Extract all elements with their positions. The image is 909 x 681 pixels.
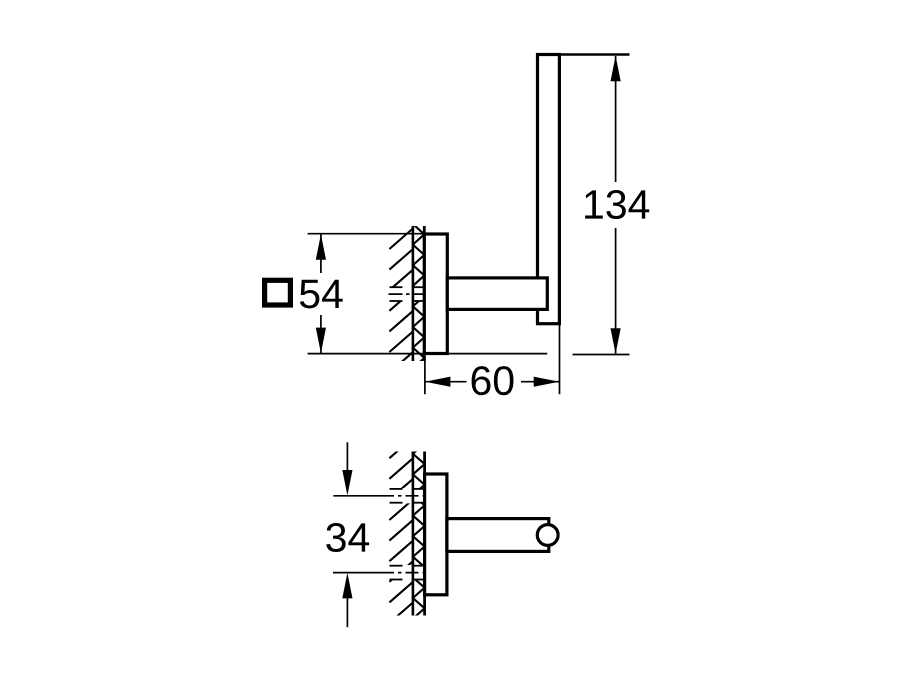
dim 54 arrows [316,234,326,260]
dim 34 bottom centre dash-dot [394,572,425,574]
dim 134 arrows [611,56,621,82]
wall diagonal hatch lines [389,438,413,459]
wall plate (top view) [425,474,447,595]
dim 34 lower dimension line [346,598,348,627]
dim 60 dimension line left [425,381,467,383]
wall front face line [423,226,426,361]
hole white-out [387,287,426,302]
dim 134 dimension line [615,56,617,354]
vertical bar of holder [538,55,560,324]
dim 60 dimension line right [521,381,559,383]
dim 34 upper dimension line [346,442,348,471]
dim text 34 [326,523,369,552]
horizontal arm [447,278,547,310]
wall herringbone zigzag [413,433,425,629]
hole white-out [387,488,427,503]
hole white-out [387,565,427,580]
dim 54 top extension line [308,233,446,235]
square-section symbol [265,280,291,305]
wall diagonal hatch lines [389,229,413,250]
dim 34 bottom extension line [333,572,394,574]
dim 54 dimension line [320,234,322,353]
dim 134 bottom extension line [573,354,630,356]
rod end ball [537,525,558,546]
hole outline lines [390,488,403,490]
dim 134 top extension line [537,53,630,55]
dim 60 right extension line [559,325,561,394]
spare roll holder rod [447,519,549,552]
dim 34 top centre dash-dot [394,495,425,497]
dim text 60 [472,366,514,395]
hole outline lines [390,565,403,567]
dim 34 top extension line [333,495,394,497]
dim 60 left extension line [424,356,426,394]
hole centre dash-dot line [389,293,426,295]
wall surface line [412,226,415,361]
wall front face line [423,452,426,616]
wall herringbone zigzag [413,224,424,379]
dim 60 arrows [425,377,451,387]
wall plate (side view) [424,234,447,354]
hole outline lines [390,286,403,288]
dim text 54 [300,280,343,309]
dim text 134 [585,190,649,219]
wall surface line [412,452,415,616]
dim 54 bottom extension line / plate bottom extension [308,353,548,355]
